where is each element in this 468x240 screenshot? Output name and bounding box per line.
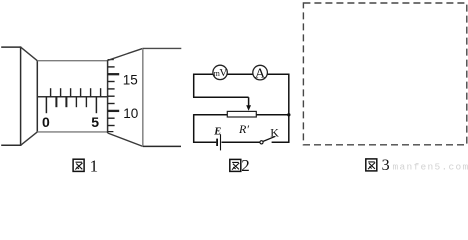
- dashed blank box for 图3: [303, 3, 466, 145]
- svg-text:R′: R′: [238, 122, 249, 136]
- svg-text:0: 0: [42, 114, 50, 130]
- lower-left vertical wire: [193, 114, 195, 143]
- switch contact circle: [260, 141, 263, 144]
- bottom wire right segment: [272, 141, 290, 143]
- thimble scale ticks: [108, 60, 120, 132]
- wiper branch wire: [193, 97, 249, 106]
- rheostat right lead wire: [256, 114, 289, 116]
- micrometer frame slants: [21, 47, 38, 145]
- wiper arrowhead: [246, 105, 251, 111]
- ammeter A: [253, 65, 268, 81]
- svg-text:2: 2: [241, 156, 250, 173]
- svg-text:10: 10: [123, 106, 138, 121]
- svg-text:5: 5: [91, 114, 99, 130]
- svg-text:15: 15: [123, 72, 138, 87]
- rheostat left lead wire: [194, 114, 228, 116]
- thimble cone top slant: [108, 48, 143, 60]
- svg-text:E: E: [213, 126, 221, 137]
- micrometer sleeve top edge: [37, 60, 107, 62]
- svg-text:manfen5.com: manfen5.com: [393, 162, 468, 173]
- circuit: top-left vertical wire: [193, 74, 195, 98]
- micrometer frame left bar: [1, 46, 20, 146]
- micrometer sleeve bottom edge: [37, 131, 107, 133]
- voltmeter mV: [213, 65, 227, 79]
- thimble edge column: [107, 60, 109, 133]
- battery E long plate: [220, 134, 222, 150]
- lower mm ticks: [46, 97, 96, 113]
- circuit: top wire: [193, 73, 290, 75]
- main scale reference line: [37, 96, 107, 98]
- thimble body bottom edge: [143, 145, 181, 147]
- figure label 图2 glyph: [230, 159, 241, 171]
- svg-text:A: A: [255, 67, 266, 82]
- bottom wire left segment: [193, 141, 216, 143]
- circuit: right vertical wire: [288, 74, 290, 144]
- svg-text:mV: mV: [214, 67, 228, 79]
- bottom wire middle segment: [222, 141, 260, 143]
- junction dot: [287, 113, 290, 116]
- svg-text:1: 1: [90, 156, 99, 173]
- rheostat R' box: [227, 111, 256, 117]
- micrometer sleeve left edge: [36, 60, 38, 132]
- figure label 图3 glyph: [366, 159, 377, 171]
- thimble cone bottom slant: [108, 133, 143, 146]
- svg-text:3: 3: [382, 157, 390, 173]
- battery E short plate: [216, 139, 218, 146]
- svg-text:K: K: [270, 126, 279, 140]
- thimble body top edge: [143, 47, 182, 49]
- figure label 图1 glyph: [73, 159, 84, 171]
- switch K lever: [263, 136, 276, 141]
- thimble body left edge: [142, 48, 144, 146]
- upper half-mm ticks: [51, 88, 101, 97]
